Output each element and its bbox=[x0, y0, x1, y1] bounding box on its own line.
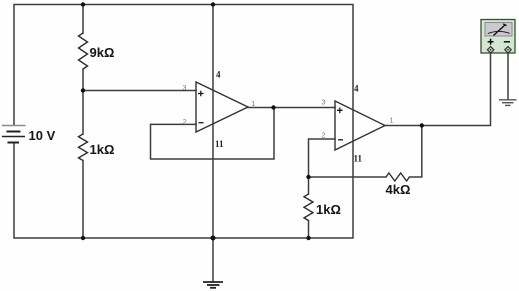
svg-text:4: 4 bbox=[354, 83, 359, 93]
svg-text:11: 11 bbox=[215, 139, 224, 149]
svg-text:10 V: 10 V bbox=[29, 128, 56, 143]
svg-text:3: 3 bbox=[322, 99, 326, 106]
svg-text:2: 2 bbox=[322, 132, 326, 139]
svg-text:4kΩ: 4kΩ bbox=[386, 182, 411, 197]
svg-text:11: 11 bbox=[354, 153, 363, 163]
svg-text:1kΩ: 1kΩ bbox=[316, 202, 341, 217]
svg-text:9kΩ: 9kΩ bbox=[90, 45, 115, 60]
svg-text:2: 2 bbox=[183, 119, 187, 126]
svg-text:1: 1 bbox=[252, 101, 256, 108]
svg-text:1kΩ: 1kΩ bbox=[90, 142, 115, 157]
svg-text:4: 4 bbox=[216, 70, 221, 80]
svg-text:3: 3 bbox=[183, 85, 187, 92]
svg-text:1: 1 bbox=[390, 117, 394, 124]
